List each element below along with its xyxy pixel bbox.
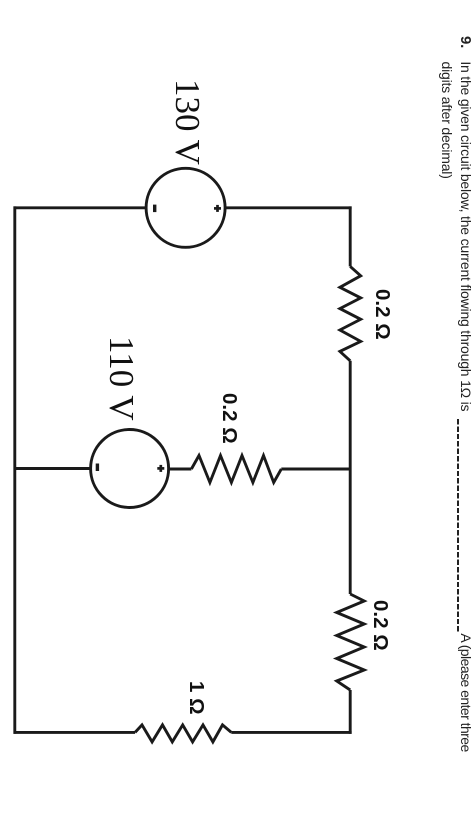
svg-text:130 V: 130 V bbox=[168, 79, 207, 165]
bottom wire bbox=[13, 206, 16, 733]
middle branch upper wire bbox=[281, 468, 350, 471]
wire top-right segment bbox=[349, 690, 352, 734]
right wire lower bbox=[14, 731, 136, 734]
wire top-left segment bbox=[349, 206, 352, 266]
resistor R2 0.2ohm zigzag (top right) bbox=[337, 594, 365, 690]
svg-text:0.2 Ω: 0.2 Ω bbox=[218, 393, 241, 444]
V2 minus sign bbox=[96, 464, 99, 472]
question text line 1 bbox=[456, 36, 474, 752]
svg-text:1 Ω: 1 Ω bbox=[185, 681, 208, 715]
V1 plus sign bbox=[216, 205, 219, 212]
question text line 2 bbox=[437, 62, 456, 179]
middle branch lower wire bbox=[14, 467, 91, 470]
source V2 110V circle bbox=[91, 430, 169, 508]
svg-text:110 V: 110 V bbox=[102, 336, 141, 421]
wire left upper bbox=[225, 206, 352, 209]
wire top-middle segment bbox=[349, 361, 352, 594]
V2 plus sign bbox=[159, 465, 162, 472]
middle branch stub between resistor and source bbox=[169, 468, 192, 471]
resistor R1 0.2ohm zigzag (top left) bbox=[340, 266, 361, 360]
wire left lower bbox=[14, 206, 147, 209]
resistor R4 1ohm zigzag (right side, vertical) bbox=[135, 725, 231, 742]
svg-text:0.2 Ω: 0.2 Ω bbox=[369, 600, 392, 651]
resistor R3 0.2ohm zigzag (middle, vertical) bbox=[191, 456, 281, 483]
svg-text:0.2 Ω: 0.2 Ω bbox=[371, 289, 394, 340]
V1 minus sign bbox=[153, 205, 156, 213]
source V1 130V circle bbox=[146, 168, 225, 247]
right wire upper bbox=[231, 731, 351, 734]
